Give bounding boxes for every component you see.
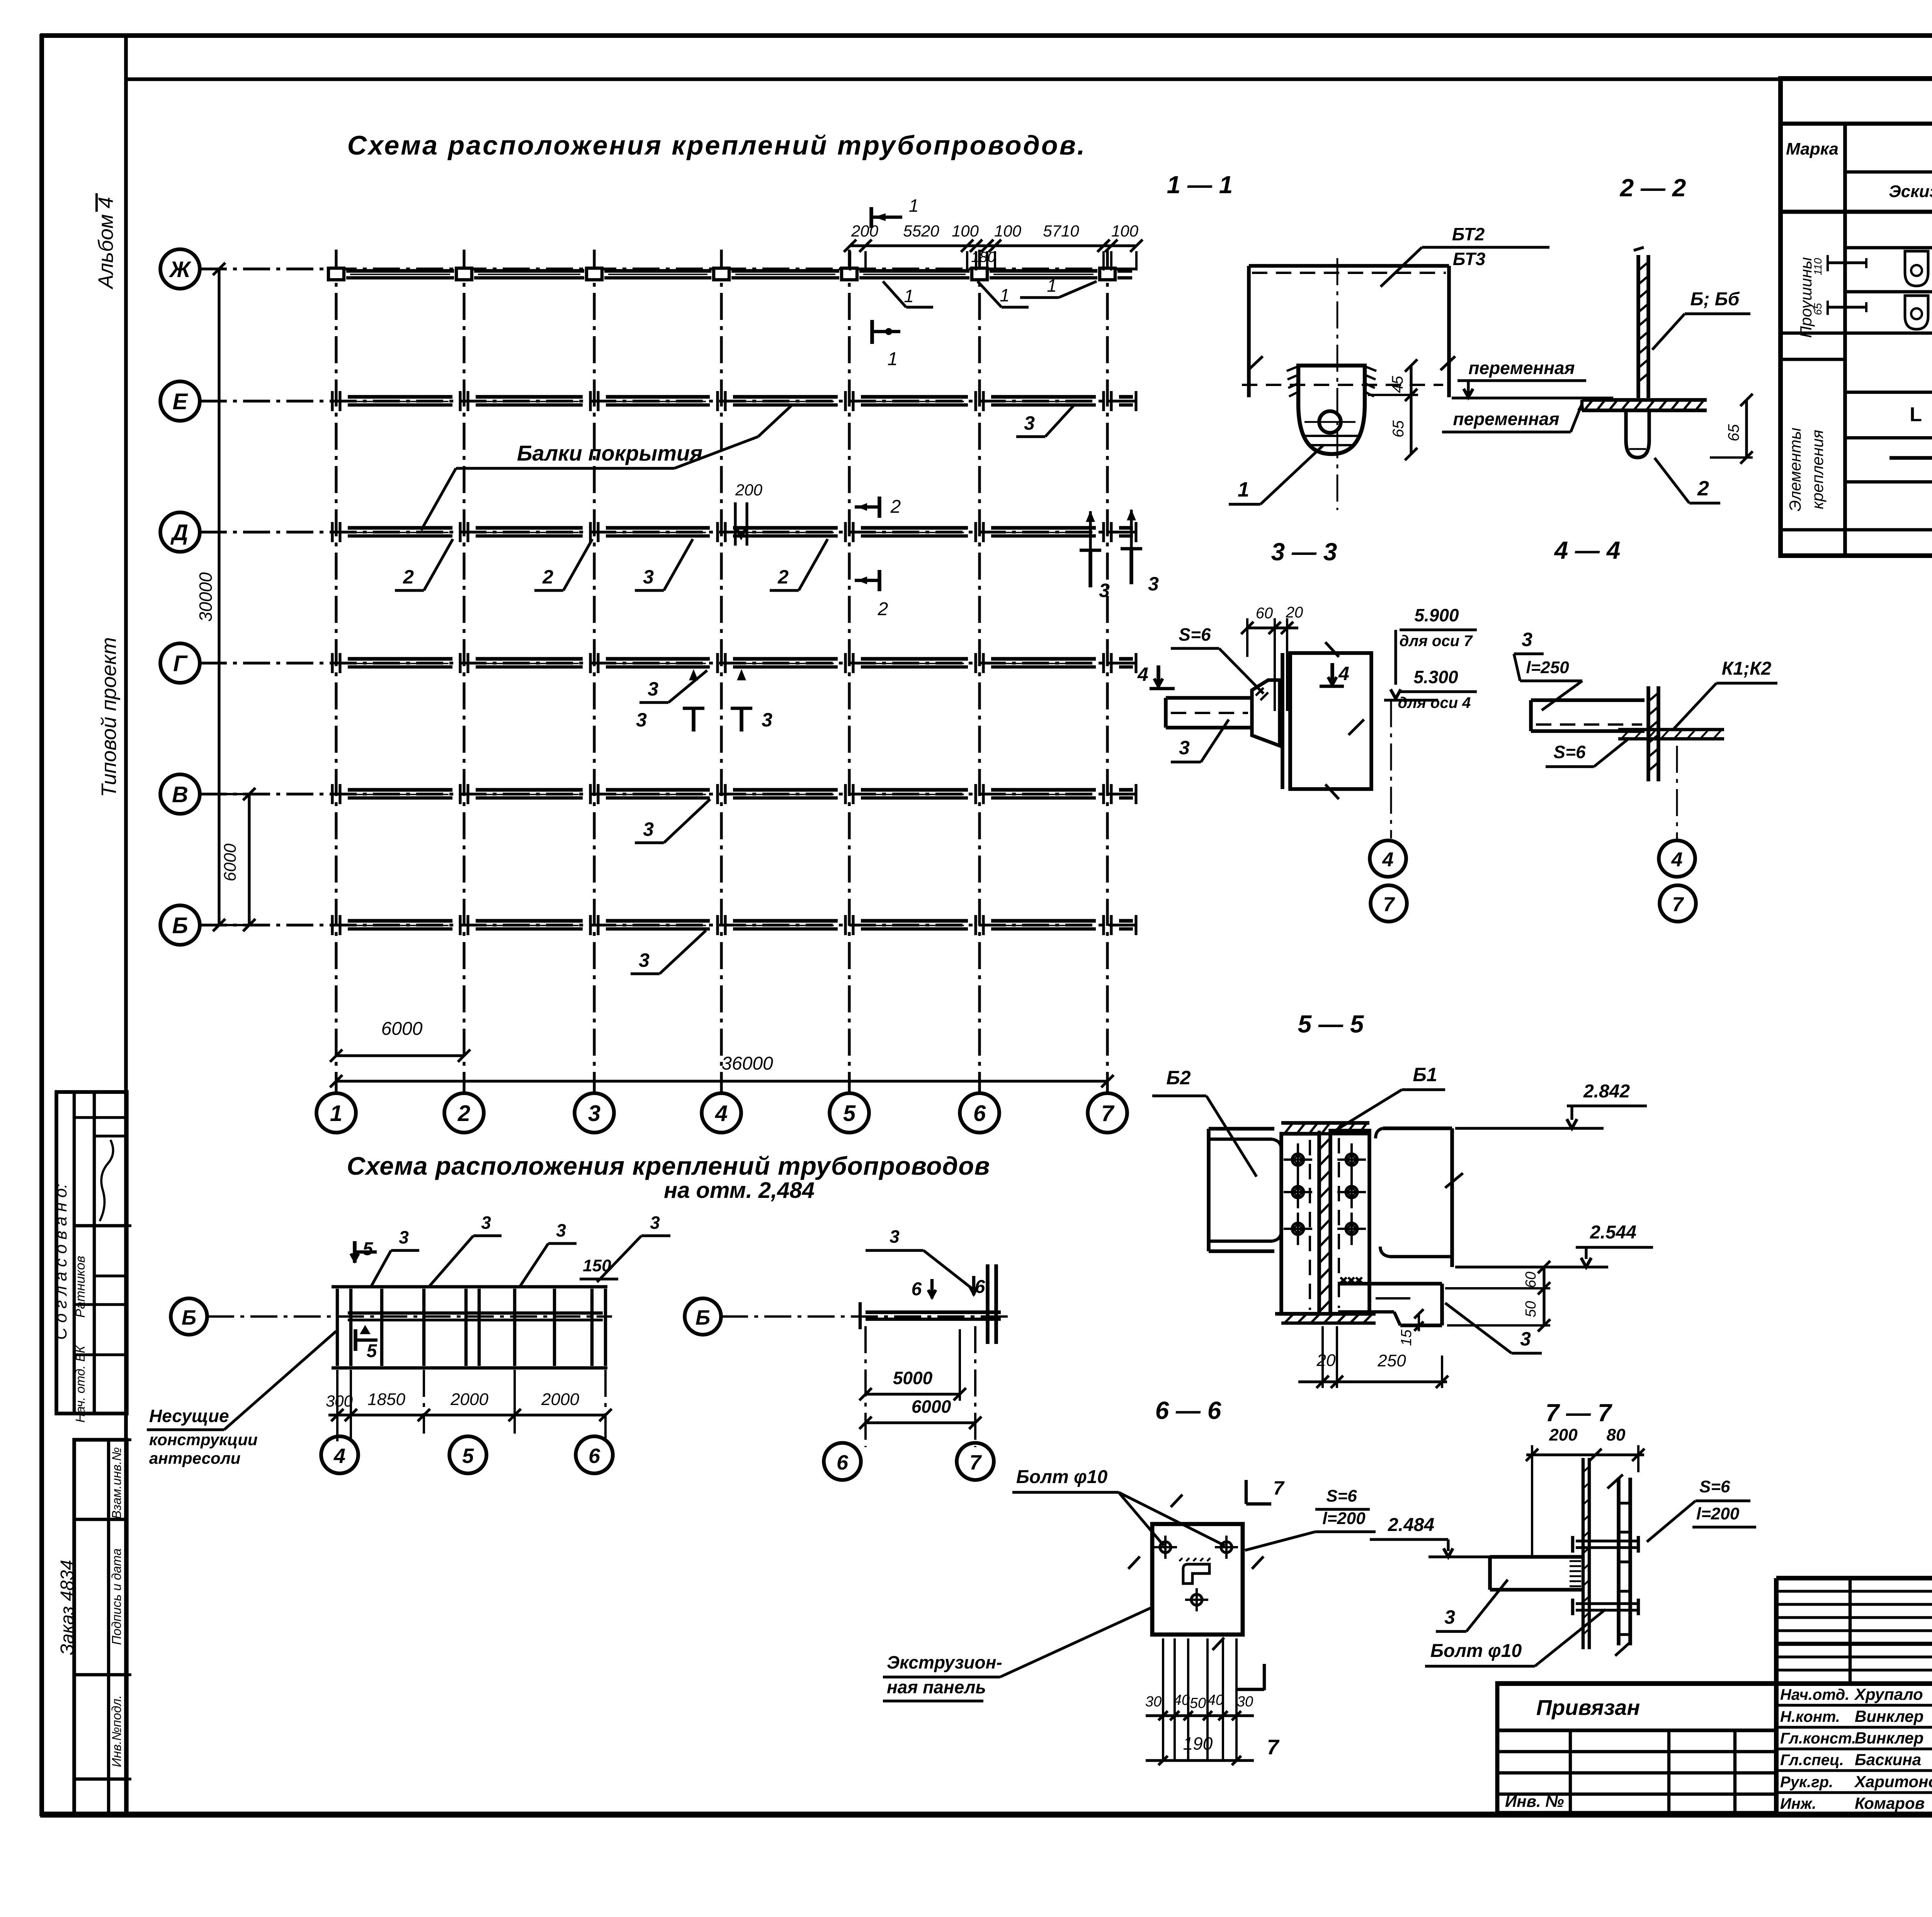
section 3-3 circle 4	[1370, 840, 1406, 877]
svg-text:2: 2	[542, 566, 553, 588]
axis Е column tick pairs	[331, 391, 333, 411]
svg-text:Подпись и дата: Подпись и дата	[109, 1548, 124, 1645]
svg-text:Экструзион-: Экструзион-	[887, 1652, 1002, 1672]
leader labels 1 on axis Ж beams	[883, 281, 906, 307]
svg-text:3: 3	[639, 949, 650, 971]
svg-text:3: 3	[1444, 1606, 1455, 1628]
svg-text:6: 6	[973, 1101, 986, 1126]
svg-text:1: 1	[888, 349, 898, 369]
section 6-6 hook symbol	[1183, 1564, 1209, 1584]
svg-text:Баскина: Баскина	[1855, 1750, 1921, 1769]
schema2 axis Б circle (right)	[685, 1298, 721, 1335]
svg-text:2.842: 2.842	[1583, 1081, 1630, 1102]
svg-text:3: 3	[643, 566, 654, 588]
svg-text:К1;К2: К1;К2	[1722, 658, 1772, 679]
svg-text:5520: 5520	[903, 222, 939, 240]
svg-text:крепления: крепления	[1808, 430, 1827, 509]
svg-text:S=6: S=6	[1553, 742, 1586, 762]
section 4-4 vertical panel	[1646, 686, 1650, 781]
schema2 axis Б circle (left)	[171, 1298, 207, 1335]
svg-text:3: 3	[588, 1101, 600, 1126]
svg-text:для оси 4: для оси 4	[1398, 694, 1471, 711]
svg-text:Марка: Марка	[1786, 139, 1838, 158]
section 6-6 dim 190	[1146, 1759, 1254, 1762]
svg-text:1: 1	[1000, 285, 1010, 305]
svg-text:для оси 7: для оси 7	[1400, 633, 1473, 650]
svg-text:конструкции: конструкции	[149, 1431, 258, 1449]
section 5-5 weld marks on bracket	[1340, 1277, 1347, 1283]
svg-text:Несущие: Несущие	[149, 1406, 229, 1426]
svg-text:30000: 30000	[196, 572, 216, 622]
plan column centerlines 1-7	[335, 250, 337, 1094]
svg-text:250: 250	[1377, 1351, 1406, 1370]
section 6-6 dim extension lines below	[1162, 1638, 1164, 1761]
svg-text:Харитонов: Харитонов	[1854, 1772, 1932, 1791]
svg-text:190: 190	[1183, 1733, 1213, 1754]
svg-text:2000: 2000	[450, 1390, 488, 1409]
section 6-6 bolt holes	[1160, 1542, 1171, 1553]
section 5-5 bolts left channel	[1292, 1154, 1304, 1165]
svg-text:переменная: переменная	[1468, 358, 1575, 378]
svg-text:2000: 2000	[541, 1390, 579, 1409]
svg-text:Болт φ10: Болт φ10	[1430, 1641, 1522, 1661]
section 1-1 weld hatch	[1287, 366, 1298, 371]
svg-text:Г: Г	[173, 651, 188, 676]
vedomost row S=6	[1889, 456, 1932, 460]
svg-text:Рук.гр.: Рук.гр.	[1780, 1774, 1833, 1791]
section cut marks 2 at axis Д	[878, 497, 881, 518]
svg-text:3: 3	[650, 1213, 660, 1233]
svg-text:1: 1	[1238, 478, 1249, 501]
vedomost table vertical lines	[1843, 124, 1847, 556]
svg-text:20: 20	[1316, 1351, 1336, 1370]
svg-text:антресоли: антресоли	[149, 1449, 240, 1467]
section 1-1 lug hole	[1319, 411, 1341, 433]
svg-text:3: 3	[1520, 1328, 1531, 1350]
svg-text:5: 5	[363, 1239, 374, 1259]
svg-text:5710: 5710	[1043, 222, 1079, 240]
svg-text:15: 15	[1398, 1329, 1415, 1346]
svg-text:3: 3	[643, 818, 654, 840]
stamp signature squiggle	[100, 1140, 113, 1221]
svg-text:S=6: S=6	[1179, 624, 1211, 645]
svg-text:Инв.№подл.: Инв.№подл.	[109, 1695, 124, 1767]
svg-text:6000: 6000	[221, 844, 240, 881]
svg-text:на отм. 2,484: на отм. 2,484	[664, 1178, 815, 1203]
axis centerline Г	[200, 662, 1140, 664]
svg-text:110: 110	[1812, 258, 1824, 275]
svg-text:Ратников: Ратников	[73, 1256, 88, 1318]
svg-text:Б; Бб: Б; Бб	[1690, 289, 1740, 310]
svg-text:Гл.конст.: Гл.конст.	[1780, 1730, 1856, 1747]
svg-text:200: 200	[851, 222, 879, 240]
svg-text:2: 2	[777, 566, 789, 588]
section 2-2 vertical plate Б Бб	[1636, 255, 1640, 398]
svg-text:Винклер: Винклер	[1855, 1707, 1923, 1725]
svg-text:200: 200	[1549, 1425, 1578, 1444]
svg-text:100: 100	[994, 222, 1022, 240]
section 5-5 bolts right channel	[1346, 1154, 1357, 1165]
svg-text:5 — 5: 5 — 5	[1298, 1010, 1364, 1038]
axis Ж beam bands	[346, 269, 454, 273]
titleblock upper verticals	[1849, 1578, 1852, 1684]
svg-text:1850: 1850	[367, 1390, 405, 1409]
privyazan table lines	[1497, 1728, 1776, 1732]
axis Д column tick pairs	[331, 522, 333, 542]
section 3-3 level line and centerline	[1384, 699, 1438, 701]
svg-text:1: 1	[1047, 276, 1057, 296]
svg-text:65: 65	[1725, 424, 1742, 441]
svg-text:6: 6	[912, 1279, 922, 1300]
svg-text:3: 3	[399, 1227, 409, 1247]
svg-text:30: 30	[1145, 1694, 1162, 1710]
schema2 right beam	[866, 1310, 1001, 1314]
svg-text:Хрупало: Хрупало	[1854, 1685, 1923, 1703]
vedomost row2 sketch	[1828, 306, 1866, 308]
svg-text:С о г л а с о в а н о:: С о г л а с о в а н о:	[51, 1184, 70, 1340]
svg-text:l=200: l=200	[1696, 1504, 1740, 1523]
section 1-1 beam outline	[1249, 264, 1449, 268]
svg-text:3: 3	[1099, 580, 1110, 601]
section 5-5 left beam outline	[1207, 1129, 1211, 1251]
svg-text:4: 4	[1338, 663, 1349, 684]
svg-text:2: 2	[457, 1101, 470, 1126]
section 5-5 right channel	[1330, 1131, 1369, 1314]
vedomost table outer border	[1781, 78, 1932, 556]
stamp box lower (Взам.инв./Подпись/Инв.)	[74, 1440, 127, 1814]
svg-text:300: 300	[326, 1392, 353, 1410]
section cut mark 1 (top)	[869, 207, 873, 228]
svg-text:Заказ 4834: Заказ 4834	[57, 1560, 78, 1655]
schema2 column circles 6 7	[824, 1443, 861, 1480]
section 4-4 circle 7	[1660, 885, 1696, 922]
svg-text:1: 1	[904, 286, 914, 306]
svg-text:60: 60	[1523, 1272, 1539, 1288]
schema2 beam band on axis Б	[348, 1311, 603, 1315]
axis Е beam bands	[348, 395, 452, 399]
svg-text:S=6: S=6	[1326, 1487, 1357, 1505]
svg-text:1 — 1: 1 — 1	[1167, 171, 1233, 199]
svg-text:7: 7	[1267, 1735, 1280, 1759]
svg-text:2: 2	[890, 497, 901, 517]
svg-text:S=6: S=6	[1699, 1477, 1730, 1496]
svg-text:Винклер: Винклер	[1855, 1729, 1923, 1747]
svg-text:5.300: 5.300	[1413, 667, 1458, 687]
axis Ж beam squares at columns	[328, 268, 344, 280]
schema2 right vertical plate	[986, 1264, 990, 1344]
svg-text:6 — 6: 6 — 6	[1155, 1397, 1221, 1424]
svg-text:3: 3	[1522, 629, 1532, 650]
svg-text:Болт φ10: Болт φ10	[1016, 1467, 1108, 1487]
plan column circles 1-7	[316, 1093, 356, 1133]
section 5-5 web plate between channels	[1318, 1131, 1321, 1314]
section 6-6 cut mark 7 top	[1245, 1480, 1248, 1504]
svg-text:30: 30	[1237, 1694, 1253, 1710]
svg-text:4: 4	[333, 1444, 345, 1468]
axis circle Г	[160, 643, 200, 683]
svg-text:3: 3	[762, 709, 772, 731]
svg-text:7 — 7: 7 — 7	[1546, 1399, 1613, 1427]
section 3-3 column	[1281, 653, 1284, 789]
fold tick marks on inner frame	[116, 1224, 131, 1227]
svg-text:80: 80	[1607, 1425, 1626, 1444]
svg-text:3: 3	[636, 709, 647, 731]
titleblock outer lines	[1774, 1578, 1779, 1814]
axis centerline Е	[200, 400, 1140, 402]
svg-text:Е: Е	[173, 389, 189, 414]
axis Б beam bands	[348, 919, 452, 923]
section 6-6 panel square	[1152, 1524, 1243, 1635]
section 1-1 break marks	[1248, 356, 1263, 370]
svg-text:Типовой проект: Типовой проект	[97, 637, 121, 797]
schema2 ladder structure	[332, 1285, 607, 1288]
section 4-4 centerline	[1676, 746, 1678, 839]
svg-text:60: 60	[1256, 605, 1273, 622]
svg-text:Д: Д	[170, 520, 188, 545]
axis circle Е	[160, 381, 200, 421]
svg-text:Эскиз: Эскиз	[1889, 182, 1932, 201]
svg-text:180: 180	[971, 249, 995, 265]
svg-text:Балки покрытия: Балки покрытия	[517, 441, 702, 465]
axis circle Ж	[160, 249, 200, 289]
svg-text:Б: Б	[182, 1306, 196, 1329]
svg-text:36000: 36000	[721, 1053, 773, 1074]
inner frame top line	[124, 77, 1932, 81]
axis В beam bands	[348, 788, 452, 792]
svg-text:2.544: 2.544	[1590, 1222, 1636, 1243]
svg-text:3: 3	[889, 1226, 900, 1247]
svg-text:БТ2: БТ2	[1452, 224, 1485, 244]
svg-text:2.484: 2.484	[1388, 1515, 1434, 1535]
section 5-5 right beam outline	[1450, 1128, 1454, 1267]
schema2 dimension chain 300 1850 2000 2000	[328, 1414, 605, 1416]
page outer border	[40, 33, 1932, 38]
section 4-4 thin plate K1 K2	[1618, 728, 1724, 731]
svg-text:3: 3	[1179, 737, 1190, 759]
svg-text:4: 4	[1671, 849, 1683, 871]
svg-text:65: 65	[1390, 420, 1407, 437]
svg-text:Инж.: Инж.	[1780, 1795, 1816, 1812]
svg-text:Нач.отд.: Нач.отд.	[1780, 1686, 1849, 1703]
section 7-7 bolt lines	[1576, 1539, 1638, 1542]
svg-text:150: 150	[583, 1256, 611, 1275]
section 6-6 break marks	[1171, 1495, 1182, 1507]
svg-text:3: 3	[1148, 573, 1159, 595]
svg-text:Б: Б	[696, 1306, 710, 1329]
svg-text:l=200: l=200	[1322, 1509, 1366, 1528]
svg-text:5: 5	[462, 1444, 474, 1468]
axis circle Д	[160, 512, 200, 552]
section 2-2 lug below	[1626, 410, 1649, 458]
svg-text:100: 100	[952, 222, 979, 240]
svg-text:5000: 5000	[893, 1368, 933, 1388]
section 5-5 right dim 60 50	[1543, 1267, 1545, 1325]
svg-text:2: 2	[878, 599, 888, 619]
section 7-7 column member	[1617, 1478, 1621, 1645]
schema2 column circles 4 5 6	[321, 1436, 358, 1473]
svg-text:65: 65	[1812, 303, 1824, 315]
section cut mark 1 (below axis Ж)	[870, 320, 874, 344]
svg-text:100: 100	[1111, 222, 1139, 240]
section 6-6 dim texts 30 40 50 40 30	[1146, 1714, 1254, 1717]
svg-text:Гл.спец.: Гл.спец.	[1780, 1752, 1844, 1769]
svg-text:1: 1	[330, 1101, 342, 1126]
titleblock signature rows	[1776, 1704, 1932, 1706]
svg-text:L: L	[1910, 403, 1922, 426]
section 4-4 circle 4	[1659, 840, 1695, 877]
section 3-3 bracket beam poz.3	[1166, 696, 1252, 700]
svg-text:4: 4	[715, 1101, 728, 1126]
svg-text:2: 2	[1697, 477, 1709, 500]
svg-text:3 — 3: 3 — 3	[1271, 538, 1337, 566]
svg-text:7: 7	[1383, 893, 1395, 916]
svg-text:2 — 2: 2 — 2	[1620, 174, 1686, 202]
svg-text:Схема расположения креплений т: Схема расположения креплений трубопровод…	[347, 1152, 990, 1180]
svg-text:Ж: Ж	[168, 257, 192, 282]
axis Д beam bands	[348, 526, 452, 530]
svg-text:3: 3	[648, 678, 658, 700]
section 1-1 dimension 45 65	[1410, 366, 1412, 454]
svg-text:переменная: переменная	[1453, 409, 1559, 429]
svg-text:В: В	[172, 782, 188, 807]
svg-text:5.900: 5.900	[1414, 605, 1459, 625]
section 5-5 bottom bracket poz.3	[1338, 1282, 1442, 1286]
schema2 axis line right	[721, 1315, 1011, 1318]
svg-text:1: 1	[909, 196, 919, 216]
svg-text:5: 5	[367, 1341, 378, 1361]
section 1-1 centerline	[1337, 258, 1338, 510]
axis centerline В	[200, 793, 1140, 795]
section 5-5 top flange plates	[1281, 1121, 1369, 1125]
svg-text:Привязан: Привязан	[1536, 1695, 1640, 1720]
section 1-1 lug проушина poz.1	[1298, 366, 1365, 454]
section 3-3 circle 7	[1371, 885, 1407, 922]
svg-text:50: 50	[1523, 1301, 1539, 1317]
titleblock upper revision rows	[1776, 1590, 1932, 1592]
stamp box Согласовано	[56, 1092, 127, 1414]
axis Г column tick pairs	[331, 653, 333, 673]
svg-text:Инв. №: Инв. №	[1505, 1792, 1564, 1810]
vedomost row1 sketch	[1828, 261, 1866, 264]
svg-text:3: 3	[481, 1213, 491, 1233]
section 7-7 panel member	[1582, 1458, 1585, 1649]
section 5-5 bottom flange plates	[1275, 1312, 1376, 1316]
top dimension chain 200 5520 100 100 5710 100	[850, 244, 1136, 247]
svg-text:Н.конт.: Н.конт.	[1780, 1708, 1840, 1725]
svg-text:Схема расположения креплени: Схема расположения креплений трубопровод…	[347, 130, 1087, 160]
svg-text:50: 50	[1190, 1695, 1206, 1711]
section 5-5 left channel	[1281, 1134, 1319, 1314]
svg-text:Б: Б	[172, 913, 188, 938]
axis circle Б	[160, 905, 200, 945]
svg-text:5: 5	[843, 1101, 856, 1126]
svg-text:4: 4	[1137, 663, 1148, 685]
svg-text:6000: 6000	[381, 1019, 423, 1039]
svg-text:БТ3: БТ3	[1453, 249, 1486, 269]
labels 3 with up-arrow flags right of axis Д	[1088, 550, 1092, 587]
svg-text:40: 40	[1207, 1692, 1224, 1708]
svg-text:l=250: l=250	[1526, 658, 1569, 677]
svg-text:4: 4	[1382, 849, 1394, 871]
svg-text:Нач. отд. ВК: Нач. отд. ВК	[73, 1345, 87, 1422]
svg-text:Б2: Б2	[1166, 1067, 1190, 1089]
section 2-2 horizontal plate	[1582, 398, 1707, 402]
axis circle В	[160, 774, 200, 814]
section 2-2 dimension 65	[1745, 400, 1748, 458]
section 3-3 gusset	[1252, 680, 1280, 746]
svg-text:40: 40	[1173, 1692, 1190, 1708]
vedomost table horizontal lines	[1781, 122, 1932, 126]
axis Г beam bands	[348, 657, 452, 661]
svg-text:200: 200	[735, 481, 763, 499]
svg-text:6000: 6000	[912, 1397, 951, 1417]
svg-text:2: 2	[403, 566, 414, 588]
schema2 axis line left	[207, 1315, 612, 1318]
svg-text:Взам.инв.№: Взам.инв.№	[109, 1447, 124, 1519]
axis centerline Б	[200, 924, 1140, 926]
svg-text:7: 7	[1672, 893, 1684, 916]
svg-text:7: 7	[1273, 1477, 1285, 1499]
section 6-6 cut mark 7 bottom	[1263, 1664, 1266, 1690]
svg-text:3: 3	[1024, 412, 1035, 434]
svg-text:45: 45	[1389, 376, 1406, 393]
section 7-7 bracket poz.3	[1490, 1555, 1582, 1559]
axis Б column tick pairs	[331, 915, 333, 935]
privyazan table outer	[1497, 1683, 1776, 1813]
svg-text:Элементы: Элементы	[1786, 427, 1804, 511]
svg-text:6: 6	[588, 1444, 600, 1468]
svg-text:ная панель: ная панель	[887, 1677, 986, 1697]
svg-text:Б1: Б1	[1413, 1064, 1437, 1085]
svg-text:3: 3	[556, 1220, 566, 1240]
axis centerline Ж	[200, 267, 1140, 270]
section 4-4 beam poz.3	[1531, 698, 1645, 702]
axis centerline Д	[200, 531, 1140, 533]
svg-text:4 — 4: 4 — 4	[1554, 536, 1621, 564]
axis В column tick pairs	[331, 784, 333, 804]
svg-text:7: 7	[969, 1451, 982, 1474]
svg-text:Комаров: Комаров	[1855, 1794, 1925, 1812]
svg-text:6: 6	[837, 1451, 849, 1474]
inner frame left line	[124, 34, 128, 1815]
svg-text:7: 7	[1101, 1101, 1115, 1126]
